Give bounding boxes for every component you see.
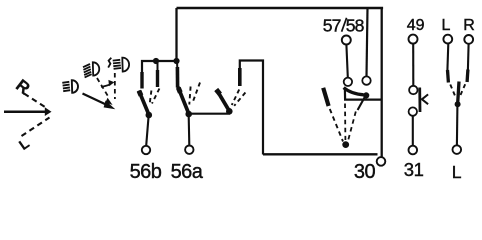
- pivot dot dimmer: [226, 108, 233, 115]
- wire dashed lever to icon B with arrowhead: [97, 78, 109, 97]
- headlamp icon C (flash position): [108, 58, 129, 72]
- bridge contact (movable, solid): [344, 88, 364, 95]
- lever linkage dashed D: [348, 112, 356, 141]
- movable contact bar: [418, 88, 421, 113]
- wire 56-contact rail: [142, 61, 177, 74]
- wire bottom rail to terminal 30: [263, 153, 378, 155]
- svg-text:R: R: [463, 17, 475, 34]
- svg-text:56b: 56b: [130, 161, 162, 183]
- svg-text:56a: 56a: [171, 161, 204, 183]
- contact circle upper (switch 49/31): [409, 86, 417, 94]
- wire R terminal to contact: [467, 44, 470, 70]
- switch lever dimmer alternate mid (dashed): [232, 90, 239, 106]
- contact circle lower (switch 49/31): [409, 107, 417, 115]
- wire pivot to terminal L bottom: [456, 106, 459, 145]
- contact 56b-left (fixed): [140, 72, 143, 89]
- lever linkage dashed B: [344, 104, 346, 141]
- actuator wedge: [422, 94, 428, 104]
- switch lever 56b alternate (dashed mid): [150, 91, 152, 105]
- lever linkage solid to dot: [358, 97, 365, 110]
- terminal 49: [409, 35, 418, 44]
- terminal L (bottom): [453, 145, 462, 154]
- contact circle L (turn switch): [344, 78, 352, 86]
- wire pivot 56a to dimmer pivot: [191, 113, 230, 115]
- wire dashed lever to icon C: [114, 73, 116, 99]
- wire bridge output: [345, 90, 382, 100]
- svg-text:31: 31: [404, 159, 424, 180]
- switch lever 56a (solid): [178, 87, 189, 114]
- svg-text:L: L: [442, 17, 451, 34]
- terminal 57/58: [342, 36, 351, 45]
- terminal 31: [409, 146, 418, 155]
- arc arrow (momentary pull): [101, 84, 111, 87]
- contact 56a stub: [176, 61, 178, 68]
- switch lever 56b alternate (dashed right): [152, 89, 159, 104]
- wire pivot 56a to terminal: [188, 116, 191, 145]
- terminal 56a: [185, 146, 193, 154]
- svg-text:L: L: [452, 162, 462, 182]
- wire dimmer contact bridge: [240, 61, 263, 155]
- switch lever turn (thick bar, left position): [323, 88, 328, 106]
- wire solid lever neutral arrow: [4, 111, 46, 114]
- lever linkage dashed A: [330, 109, 343, 142]
- wire dashed lever position R: [24, 94, 45, 108]
- headlamp icon A (low position): [62, 80, 78, 93]
- svg-text:57: 57: [323, 16, 341, 36]
- switch lever 56a alternate (dashed right): [193, 83, 200, 103]
- svg-text:58: 58: [346, 16, 365, 36]
- wire contact to terminal 31: [412, 116, 414, 146]
- terminal R (top): [464, 35, 473, 44]
- terminal 30: [377, 157, 386, 166]
- switch lever 56a alternate (dashed mid): [189, 87, 190, 105]
- wire pivot 56b to terminal: [146, 116, 148, 146]
- contact circle R (turn switch): [362, 76, 370, 84]
- svg-text:49: 49: [407, 17, 425, 34]
- switch lever L/R (solid, neutral): [458, 82, 459, 104]
- terminal L (top): [443, 35, 452, 44]
- contact R (thick): [465, 70, 469, 83]
- switch lever dimmer alternate right (dashed): [234, 93, 245, 106]
- switch lever 56b (solid, on left contact): [139, 91, 149, 115]
- wire feeder from top rail: [175, 8, 177, 61]
- terminal 56b: [142, 146, 150, 154]
- pivot dot 56b: [146, 112, 153, 119]
- svg-text:R: R: [12, 76, 33, 99]
- svg-text:30: 30: [354, 161, 376, 183]
- wire L terminal to contact: [446, 44, 449, 71]
- switch lever L/R alternate right (dashed): [461, 84, 466, 95]
- junction dot bridge output: [363, 92, 369, 98]
- contact L (thick): [446, 70, 450, 83]
- junction dot 56a feed: [173, 58, 179, 64]
- wire right vertical (rail to terminal 30): [381, 8, 383, 157]
- wire solid lever to icon A with arrowhead: [83, 94, 108, 106]
- pivot dot 56a: [185, 111, 192, 118]
- wire 49 to contact: [412, 44, 414, 86]
- pivot dot L/R switch: [455, 101, 461, 107]
- svg-text:L: L: [16, 135, 33, 153]
- junction dot on 56 rail: [153, 58, 159, 64]
- switch lever L/R alternate left (dashed): [450, 85, 455, 96]
- pivot dot turn switch: [342, 141, 349, 148]
- contact 56b-right stub: [157, 61, 159, 71]
- wire 57/58 to L contact: [346, 45, 347, 78]
- wire dashed lever position L: [22, 118, 50, 137]
- wire top rail: [177, 7, 384, 9]
- wire rail to R contact: [367, 8, 368, 76]
- contact dimmer (fixed, thick): [238, 68, 242, 86]
- headlamp icon B (middle position): [83, 62, 99, 77]
- switch lever dimmer (solid, open): [217, 90, 230, 112]
